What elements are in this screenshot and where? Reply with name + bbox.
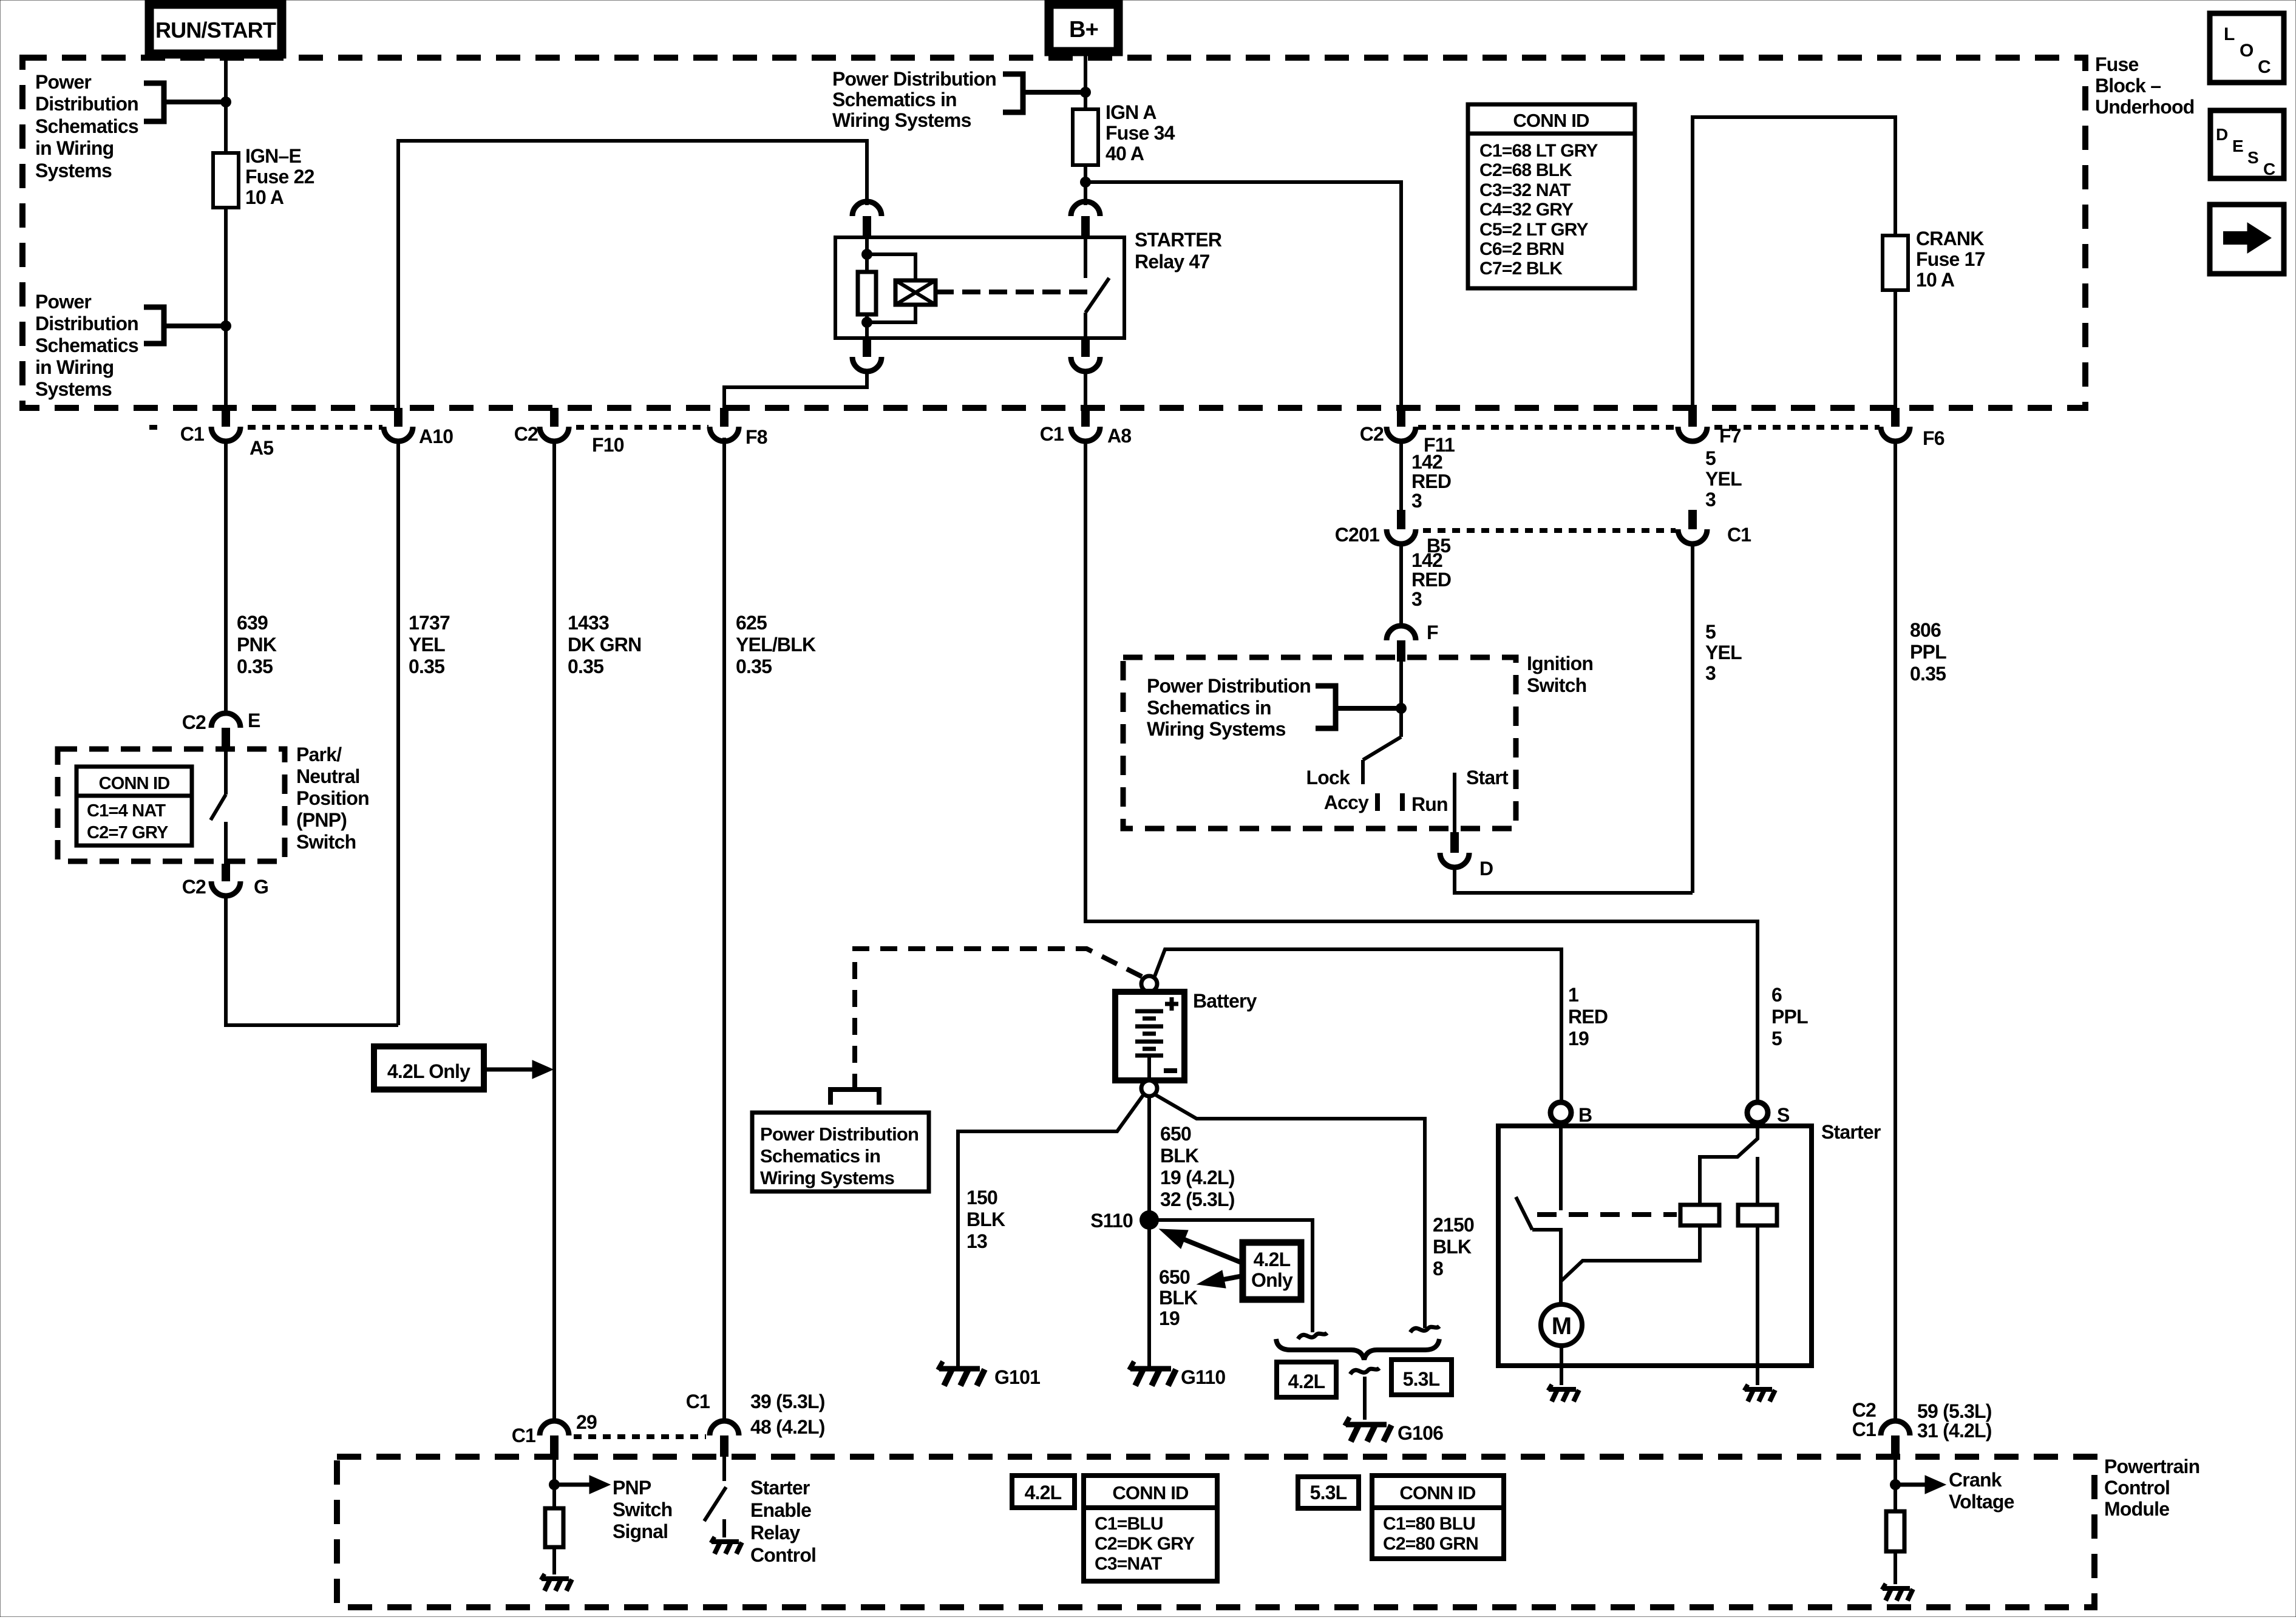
svg-text:Power Distribution: Power Distribution	[760, 1123, 919, 1145]
svg-text:C2: C2	[182, 876, 206, 898]
relay solenoid X box	[895, 280, 936, 305]
svg-text:RED: RED	[1568, 1006, 1608, 1028]
svg-text:1433: 1433	[568, 612, 609, 634]
svg-text:Relay 47: Relay 47	[1135, 251, 1209, 273]
svg-text:F: F	[1427, 622, 1438, 643]
svg-text:19: 19	[1568, 1028, 1589, 1049]
connector C1 A8	[1081, 408, 1090, 427]
svg-text:A5: A5	[250, 437, 273, 459]
PNP switch dashed box	[58, 749, 285, 861]
svg-text:BLK: BLK	[966, 1208, 1005, 1230]
starter coil path from S	[1700, 1123, 1758, 1205]
svg-text:Fuse 34: Fuse 34	[1106, 122, 1175, 144]
svg-text:Battery: Battery	[1193, 990, 1257, 1012]
svg-text:(PNP): (PNP)	[296, 809, 347, 831]
connector F7	[1688, 408, 1697, 427]
connector C1 29	[540, 1421, 569, 1435]
svg-text:Control: Control	[2104, 1477, 2170, 1499]
svg-text:in Wiring: in Wiring	[35, 356, 114, 378]
svg-text:Relay: Relay	[750, 1522, 800, 1544]
svg-text:C1: C1	[1727, 524, 1751, 546]
svg-text:C1=BLU: C1=BLU	[1095, 1514, 1163, 1534]
svg-text:40 A: 40 A	[1106, 143, 1144, 164]
svg-text:Enable: Enable	[750, 1499, 811, 1521]
svg-text:0.35: 0.35	[568, 656, 603, 677]
relay coil internals	[865, 237, 869, 272]
resistor crank sense	[1886, 1511, 1904, 1551]
svg-text:C5=2 LT GRY: C5=2 LT GRY	[1479, 220, 1589, 240]
svg-text:39 (5.3L): 39 (5.3L)	[750, 1391, 825, 1412]
svg-text:4.2L Only: 4.2L Only	[387, 1060, 470, 1082]
wire 142 RED lower	[1399, 544, 1403, 626]
battery positive terminal	[1141, 976, 1157, 992]
wire 625 YEL/BLK	[722, 438, 726, 1421]
svg-text:G: G	[254, 876, 268, 898]
fuse IGN A Fuse 34	[1073, 109, 1098, 165]
starter enable relay control driver	[722, 1457, 726, 1481]
svg-text:Start: Start	[1466, 767, 1509, 788]
svg-text:S: S	[1777, 1104, 1790, 1126]
tag 4.2L engine	[1277, 1362, 1336, 1397]
ground G110	[1130, 1366, 1171, 1372]
svg-text:3: 3	[1705, 662, 1716, 684]
wire 639 PNK	[224, 441, 228, 714]
svg-text:8: 8	[1433, 1258, 1443, 1279]
svg-text:806: 806	[1910, 619, 1941, 641]
svg-text:1737: 1737	[409, 612, 450, 634]
svg-text:PNK: PNK	[237, 634, 277, 656]
svg-text:CRANK: CRANK	[1916, 228, 1984, 249]
svg-text:F6: F6	[1923, 427, 1944, 449]
svg-text:B+: B+	[1069, 17, 1098, 42]
svg-text:C3=NAT: C3=NAT	[1095, 1554, 1162, 1574]
svg-text:C2=80 GRN: C2=80 GRN	[1383, 1534, 1478, 1554]
svg-text:CONN ID: CONN ID	[1513, 110, 1589, 131]
powertrain control module dashed box	[337, 1457, 2094, 1607]
svg-text:CONN ID: CONN ID	[1399, 1482, 1476, 1503]
fuse CRANK Fuse 17	[1883, 236, 1908, 290]
svg-text:C: C	[2263, 160, 2275, 178]
svg-text:150: 150	[966, 1187, 997, 1208]
svg-text:C1: C1	[686, 1391, 710, 1412]
ground G106	[1346, 1422, 1387, 1428]
dashed branch to power distribution	[855, 949, 1142, 1088]
svg-text:5: 5	[1705, 621, 1716, 643]
power distribution reference 5 box	[752, 1113, 929, 1191]
svg-text:PPL: PPL	[1910, 641, 1946, 663]
wire relay coil to F8	[724, 371, 867, 408]
starter box	[1498, 1126, 1812, 1366]
svg-text:D: D	[2216, 125, 2228, 144]
svg-text:Neutral: Neutral	[296, 765, 360, 787]
svg-text:BLK: BLK	[1159, 1287, 1198, 1309]
wire RUN/START feed	[224, 54, 228, 153]
svg-text:29: 29	[576, 1411, 597, 1433]
svg-text:CONN ID: CONN ID	[1112, 1482, 1189, 1503]
svg-text:YEL/BLK: YEL/BLK	[736, 634, 816, 656]
svg-text:3: 3	[1411, 588, 1422, 610]
svg-text:Power Distribution: Power Distribution	[832, 68, 996, 90]
wire B+ feed	[1084, 52, 1087, 109]
svg-text:RED: RED	[1411, 470, 1451, 492]
motor ground wire	[1560, 1346, 1563, 1385]
svg-text:B: B	[1578, 1104, 1592, 1126]
svg-text:Switch: Switch	[1527, 674, 1586, 696]
conn id table fuse block	[1468, 104, 1635, 288]
dotted line C201 row	[1423, 528, 1676, 533]
svg-text:650: 650	[1159, 1266, 1190, 1288]
connector A10	[394, 408, 402, 427]
tag 5.3L pcm	[1298, 1477, 1359, 1508]
svg-text:625: 625	[736, 612, 767, 634]
battery plates	[1135, 1009, 1163, 1014]
svg-text:G106: G106	[1398, 1422, 1443, 1444]
svg-text:Voltage: Voltage	[1949, 1491, 2014, 1513]
wire G loop to A10	[226, 896, 398, 1025]
hold-in coil ground wire	[1756, 1225, 1759, 1385]
arrow to S110	[1183, 1239, 1243, 1263]
connector C2 F11	[1397, 408, 1405, 427]
svg-text:Module: Module	[2104, 1498, 2169, 1520]
relay coil pin bottom connector	[863, 338, 871, 357]
tag 4.2L Only left	[374, 1046, 484, 1090]
starter switch from B	[1559, 1123, 1563, 1210]
svg-text:C1: C1	[1852, 1418, 1876, 1440]
svg-text:Lock: Lock	[1306, 767, 1350, 788]
svg-text:5.3L: 5.3L	[1310, 1482, 1347, 1503]
svg-text:C1=4 NAT: C1=4 NAT	[87, 801, 166, 821]
svg-text:Schematics in: Schematics in	[832, 89, 957, 110]
ground crank internal	[1883, 1586, 1910, 1591]
svg-text:48 (4.2L): 48 (4.2L)	[750, 1416, 825, 1438]
wire to F11	[1085, 182, 1401, 408]
svg-text:in Wiring: in Wiring	[35, 137, 114, 159]
conn id table pcm 5.3L	[1372, 1476, 1504, 1559]
svg-text:Switch: Switch	[613, 1499, 672, 1520]
battery plus symbol	[1165, 1002, 1178, 1006]
svg-text:0.35: 0.35	[409, 656, 444, 677]
svg-text:10 A: 10 A	[245, 186, 284, 208]
svg-text:Starter: Starter	[750, 1477, 810, 1499]
svg-text:Ignition: Ignition	[1527, 652, 1593, 674]
relay coil pin top connector	[852, 202, 881, 216]
svg-text:C: C	[2258, 57, 2271, 77]
connector D	[1450, 832, 1459, 853]
wire crank fuse to F6	[1894, 290, 1897, 408]
connector C1 A5	[222, 408, 230, 427]
splice S110	[1140, 1210, 1159, 1230]
svg-text:Crank: Crank	[1949, 1469, 2002, 1491]
svg-text:Power: Power	[35, 71, 91, 93]
svg-text:CONN ID: CONN ID	[99, 774, 170, 793]
svg-text:Schematics in: Schematics in	[760, 1145, 880, 1167]
tag 4.2L pcm	[1012, 1476, 1075, 1508]
svg-text:142: 142	[1411, 451, 1442, 473]
svg-text:Accy: Accy	[1324, 791, 1369, 813]
arrow to 650 BLK 19	[1220, 1276, 1243, 1280]
LOC box	[2210, 13, 2284, 83]
svg-text:YEL: YEL	[409, 634, 445, 656]
conn id table pcm 4.2L	[1084, 1476, 1217, 1581]
svg-text:C1=68 LT GRY: C1=68 LT GRY	[1479, 141, 1598, 161]
tag B+	[1049, 4, 1118, 52]
svg-text:Fuse 17: Fuse 17	[1916, 248, 1985, 270]
svg-text:Systems: Systems	[35, 160, 112, 181]
svg-text:C2: C2	[182, 711, 206, 733]
svg-text:2150: 2150	[1433, 1214, 1474, 1236]
svg-text:5: 5	[1705, 447, 1716, 469]
svg-text:6: 6	[1771, 984, 1782, 1006]
ground G101	[939, 1366, 980, 1372]
svg-text:Underhood: Underhood	[2095, 96, 2194, 118]
battery negative branches	[958, 1094, 1144, 1366]
svg-text:C7=2 BLK: C7=2 BLK	[1479, 259, 1563, 279]
resistor PNP pull	[545, 1508, 563, 1547]
svg-text:0.35: 0.35	[736, 656, 772, 677]
wire 806 PPL	[1894, 441, 1897, 1421]
svg-text:4.2L: 4.2L	[1254, 1249, 1291, 1270]
svg-text:G101: G101	[994, 1366, 1040, 1388]
conn id table PNP	[76, 767, 192, 846]
svg-text:C2: C2	[514, 423, 538, 445]
svg-text:0.35: 0.35	[237, 656, 273, 677]
svg-text:19: 19	[1159, 1307, 1180, 1329]
svg-text:S: S	[2247, 148, 2258, 167]
arrow box	[2210, 205, 2284, 274]
DESC box	[2210, 110, 2284, 178]
wire 6 PPL to starter S	[1085, 441, 1758, 1102]
ground PNP internal	[542, 1576, 569, 1581]
connector F ignition	[1387, 626, 1416, 640]
svg-text:1: 1	[1568, 984, 1578, 1006]
svg-text:S110: S110	[1090, 1210, 1133, 1232]
svg-text:31 (4.2L): 31 (4.2L)	[1917, 1420, 1992, 1442]
svg-text:C1: C1	[1040, 423, 1064, 445]
svg-text:DK GRN: DK GRN	[568, 634, 641, 656]
relay switch	[1071, 202, 1100, 216]
svg-text:Park/: Park/	[296, 744, 342, 765]
battery minus symbol	[1164, 1068, 1177, 1073]
crank voltage branch	[1894, 1457, 1897, 1511]
svg-text:Signal: Signal	[613, 1520, 668, 1542]
connector C201 B5	[1397, 510, 1405, 529]
svg-text:A10: A10	[419, 425, 453, 447]
battery positive wire	[1154, 949, 1561, 1102]
svg-text:Wiring Systems: Wiring Systems	[1147, 718, 1286, 740]
svg-text:M: M	[1552, 1313, 1572, 1340]
branch S110 to engine grounds	[1149, 1220, 1313, 1332]
relay actuation dashed link	[936, 290, 1090, 294]
wire relay switch to A8	[1084, 371, 1087, 408]
connector C2 F10	[550, 408, 559, 427]
svg-text:E: E	[248, 710, 260, 731]
tag RUN/START	[149, 4, 282, 54]
svg-text:F10: F10	[592, 434, 624, 456]
wire 1433 DK GRN	[552, 441, 556, 1421]
svg-text:C3=32 NAT: C3=32 NAT	[1479, 180, 1571, 200]
svg-text:639: 639	[237, 612, 268, 634]
svg-text:10 A: 10 A	[1916, 269, 1955, 291]
svg-text:Distribution: Distribution	[35, 93, 138, 115]
svg-text:IGN–E: IGN–E	[245, 145, 301, 167]
svg-text:5.3L: 5.3L	[1403, 1368, 1440, 1390]
svg-text:142: 142	[1411, 549, 1442, 571]
ignition switch dashed box	[1123, 657, 1516, 829]
svg-text:C6=2 BRN: C6=2 BRN	[1479, 239, 1564, 259]
svg-text:59 (5.3L): 59 (5.3L)	[1917, 1400, 1992, 1422]
svg-text:19 (4.2L): 19 (4.2L)	[1160, 1167, 1235, 1188]
svg-text:Wiring Systems: Wiring Systems	[760, 1167, 894, 1188]
wire F7 to crank fuse	[1693, 117, 1895, 408]
PNP switch signal branch	[552, 1457, 556, 1508]
dotted line PCM row	[574, 1434, 706, 1439]
svg-text:O: O	[2240, 41, 2254, 61]
svg-text:Position: Position	[296, 787, 369, 809]
svg-text:Switch: Switch	[296, 831, 356, 853]
svg-text:E: E	[2232, 137, 2243, 155]
svg-text:RED: RED	[1411, 569, 1451, 591]
ignition switch contact	[1399, 662, 1403, 737]
svg-text:C2=DK GRY: C2=DK GRY	[1095, 1534, 1195, 1554]
svg-text:Distribution: Distribution	[35, 313, 138, 334]
svg-text:STARTER: STARTER	[1135, 229, 1222, 251]
connector C1 39/48	[710, 1421, 739, 1435]
connector C2 E	[211, 713, 240, 728]
connector F8	[720, 408, 729, 427]
svg-text:BLK: BLK	[1433, 1236, 1472, 1258]
svg-text:C2: C2	[1360, 423, 1384, 445]
PNP switch contact	[224, 749, 228, 795]
svg-text:Fuse 22: Fuse 22	[245, 166, 314, 188]
svg-text:L: L	[2224, 24, 2235, 44]
bracket above PDS box	[830, 1090, 879, 1105]
connector C1 (F7 row)	[1688, 510, 1697, 529]
svg-text:C1: C1	[180, 423, 204, 445]
wire D to C1 column	[1455, 867, 1693, 893]
svg-text:Systems: Systems	[35, 378, 112, 400]
svg-text:Fuse: Fuse	[2095, 53, 2139, 75]
node junction 1	[220, 97, 231, 107]
connector C2 G	[222, 864, 230, 881]
svg-text:YEL: YEL	[1705, 642, 1742, 663]
battery box	[1115, 992, 1184, 1080]
svg-text:C2=7 GRY: C2=7 GRY	[87, 823, 168, 842]
svg-text:C201: C201	[1335, 524, 1379, 546]
relay switch pin bottom connector	[1081, 338, 1090, 357]
fuse IGN-E Fuse 22	[213, 153, 239, 208]
svg-text:3: 3	[1705, 489, 1716, 510]
svg-text:32 (5.3L): 32 (5.3L)	[1160, 1188, 1235, 1210]
wire A10 to relay coil	[398, 141, 867, 408]
terminal S	[1747, 1102, 1768, 1123]
node below fuse 34	[1080, 177, 1091, 188]
svg-text:C4=32 GRY: C4=32 GRY	[1479, 200, 1574, 220]
svg-text:Power: Power	[35, 291, 91, 313]
svg-text:A8: A8	[1107, 425, 1131, 447]
Start contact	[1453, 773, 1456, 832]
svg-text:C2: C2	[1852, 1399, 1876, 1421]
svg-text:Schematics in: Schematics in	[1147, 697, 1271, 719]
svg-text:Schematics: Schematics	[35, 334, 138, 356]
wire 142 RED upper	[1399, 441, 1403, 510]
svg-text:F8: F8	[746, 426, 767, 448]
breakout squiggle left	[1298, 1333, 1327, 1339]
starter actuation dashed	[1537, 1212, 1677, 1217]
underbrace engine split	[1276, 1339, 1439, 1360]
svg-text:C1: C1	[512, 1425, 535, 1446]
relay STARTER Relay 47 box	[835, 237, 1124, 338]
svg-text:Starter: Starter	[1821, 1121, 1881, 1143]
fuse block underhood dashed box	[22, 58, 2085, 408]
svg-text:BLK: BLK	[1160, 1145, 1199, 1167]
svg-text:Powertrain: Powertrain	[2104, 1456, 2199, 1477]
pull-in coil	[1680, 1205, 1719, 1225]
svg-text:C2=68 BLK: C2=68 BLK	[1479, 160, 1572, 180]
hold-in coil	[1738, 1205, 1777, 1225]
tag 4.2L Only right	[1243, 1242, 1301, 1300]
svg-text:PPL: PPL	[1771, 1006, 1808, 1028]
svg-text:Run: Run	[1411, 793, 1448, 815]
squiggle to G106	[1350, 1368, 1379, 1374]
terminal B	[1550, 1102, 1571, 1123]
svg-text:PNP: PNP	[613, 1477, 651, 1499]
svg-text:5: 5	[1771, 1028, 1782, 1049]
svg-text:RUN/START: RUN/START	[155, 18, 276, 42]
svg-text:0.35: 0.35	[1910, 663, 1946, 685]
svg-text:Block –: Block –	[2095, 75, 2161, 97]
motor M	[1541, 1304, 1582, 1346]
svg-text:Only: Only	[1251, 1269, 1293, 1291]
svg-text:3: 3	[1411, 490, 1422, 512]
svg-text:4.2L: 4.2L	[1025, 1482, 1062, 1503]
svg-text:IGN A: IGN A	[1106, 101, 1156, 123]
svg-text:YEL: YEL	[1705, 468, 1742, 490]
svg-text:Schematics: Schematics	[35, 115, 138, 137]
tag 5.3L engine	[1391, 1360, 1452, 1395]
svg-text:650: 650	[1160, 1123, 1191, 1145]
coil to motor path	[1561, 1225, 1700, 1281]
breakout squiggle right	[1410, 1326, 1439, 1332]
wire 1737 YEL	[396, 441, 400, 1025]
connector dotted line segments	[149, 425, 164, 430]
svg-text:C1=80 BLU: C1=80 BLU	[1383, 1514, 1475, 1534]
svg-text:D: D	[1479, 858, 1493, 879]
svg-text:Power Distribution: Power Distribution	[1147, 675, 1311, 697]
svg-text:Control: Control	[750, 1544, 816, 1566]
connector C2/C1 59/31	[1881, 1421, 1910, 1435]
node B+ junction	[1080, 87, 1091, 98]
svg-text:4.2L: 4.2L	[1288, 1371, 1325, 1392]
node junction 2	[220, 320, 231, 331]
svg-text:13: 13	[966, 1230, 987, 1252]
svg-text:G110: G110	[1181, 1366, 1225, 1388]
svg-text:Wiring Systems: Wiring Systems	[832, 109, 971, 131]
connector F6	[1891, 408, 1900, 427]
battery negative terminal	[1141, 1080, 1157, 1096]
wire 5 YEL to ignition	[1691, 544, 1694, 893]
